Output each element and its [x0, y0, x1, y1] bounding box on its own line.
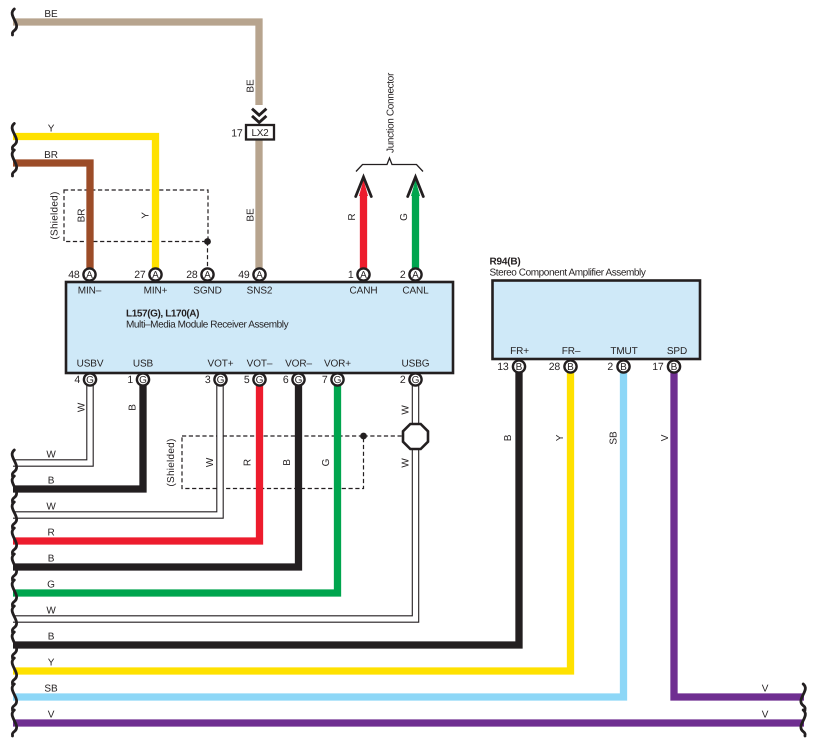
connector LX2 box with pin 17	[231, 125, 274, 140]
pin 7 G bottom of receiver	[322, 373, 344, 386]
svg-text:L157(G), L170(A): L157(G), L170(A)	[126, 308, 199, 319]
wire G green from pin 7 VOR+ to left break	[13, 380, 338, 593]
label BR on vertical wire	[77, 209, 88, 223]
label W on USBV wire	[77, 402, 88, 412]
svg-text:G: G	[86, 375, 94, 386]
svg-text:1: 1	[127, 374, 133, 386]
svg-text:V: V	[660, 434, 671, 441]
label wire colour W left	[46, 502, 56, 513]
label wire colour V right lower	[762, 710, 769, 721]
pin 17 B amplifier	[652, 360, 680, 373]
svg-text:Junction Connector: Junction Connector	[386, 72, 397, 153]
wire dashed drain from upper shield box to pin 28 SGND	[207, 242, 209, 270]
break symbol left for wire SB TMUT	[12, 684, 17, 710]
label pin name SNS2	[247, 286, 273, 297]
svg-text:TMUT: TMUT	[610, 346, 637, 357]
break symbol left for wire Y FR-	[12, 658, 17, 684]
svg-text:SGND: SGND	[193, 286, 222, 297]
label wire colour V right upper	[762, 684, 769, 695]
svg-text:2: 2	[400, 269, 406, 281]
pin 2 B amplifier	[607, 360, 629, 373]
pin 1 A top of receiver	[348, 268, 370, 281]
break symbol left for wire G VOR+	[12, 580, 17, 606]
wire BE beige from left break to LX2 connector	[13, 22, 259, 105]
junction dot on upper shield box corner	[204, 238, 211, 245]
pin 3 G bottom of receiver	[205, 373, 227, 386]
svg-text:B: B	[671, 362, 678, 373]
svg-text:3: 3	[205, 374, 211, 386]
label pin name USB	[133, 359, 154, 370]
connector LX2 double chevron	[252, 109, 266, 123]
svg-text:MIN+: MIN+	[144, 286, 168, 297]
wire G green CANL with junction-connector arrow	[408, 177, 424, 274]
break symbol left for wire B USB	[12, 476, 17, 502]
svg-text:G: G	[399, 213, 410, 221]
break symbol right for wire V SPD	[801, 684, 806, 710]
wire Y yellow from left break to pin 27 MIN+	[13, 137, 156, 275]
svg-text:B: B	[620, 362, 627, 373]
label wire colour B left	[48, 476, 55, 487]
break symbol left for wire W VOT+	[12, 502, 17, 528]
svg-text:B: B	[282, 459, 293, 466]
svg-text:BE: BE	[246, 208, 257, 222]
svg-text:(Shielded): (Shielded)	[166, 438, 177, 486]
label wire colour G left	[47, 580, 55, 591]
svg-text:R94(B): R94(B)	[490, 257, 521, 268]
shield box (Shielded) upper dashed rectangle	[64, 190, 208, 242]
label wire colour B left	[48, 554, 55, 565]
svg-text:MIN–: MIN–	[78, 286, 102, 297]
svg-text:W: W	[46, 450, 56, 461]
label wire colour W left	[46, 606, 56, 617]
svg-text:B: B	[48, 476, 55, 487]
shield box (Shielded) lower dashed rectangle	[182, 436, 364, 489]
svg-text:BR: BR	[77, 209, 88, 223]
svg-text:VOT–: VOT–	[247, 359, 273, 370]
pin 13 B amplifier	[497, 360, 525, 373]
svg-text:5: 5	[244, 374, 250, 386]
svg-text:G: G	[334, 375, 342, 386]
svg-text:Y: Y	[48, 124, 55, 135]
pin 48 A top of receiver	[68, 268, 95, 281]
break symbol left for wire BR	[12, 150, 17, 176]
svg-text:FR–: FR–	[562, 346, 581, 357]
svg-text:B: B	[48, 632, 55, 643]
wire B black from amplifier pin 13 FR+ to left break	[13, 367, 519, 645]
break symbol left for wire W USBG	[12, 606, 17, 632]
svg-text:7: 7	[322, 374, 328, 386]
label wire colour W left	[46, 450, 56, 461]
wire dashed drain from lower shield box to shield ground octagon	[364, 435, 416, 437]
label pin name MIN+	[144, 286, 168, 297]
svg-text:17: 17	[652, 361, 664, 373]
pin 27 A top of receiver	[134, 268, 161, 281]
svg-text:2: 2	[400, 374, 406, 386]
svg-text:W: W	[46, 502, 56, 513]
label (Shielded) lower	[166, 438, 177, 486]
break symbol left for wire V bottom	[12, 710, 17, 736]
junction connector brace	[356, 158, 423, 172]
svg-text:6: 6	[283, 374, 289, 386]
wire R red from pin 5 VOT- to left break	[13, 380, 260, 541]
label pin name VOT+	[208, 359, 234, 370]
wire BR brown from left break to pin 48 MIN-	[13, 163, 90, 274]
label pin name VOT&#8211;	[247, 359, 273, 370]
wire V violet pass-through across bottom	[13, 719, 804, 726]
svg-text:USB: USB	[133, 359, 154, 370]
wire Y yellow from amplifier pin 28 FR- to left break	[13, 367, 571, 671]
svg-text:USBV: USBV	[77, 359, 104, 370]
svg-text:W: W	[401, 458, 412, 468]
pin 2 A top of receiver	[400, 268, 422, 281]
label R on CANH wire	[347, 213, 358, 220]
svg-text:B: B	[516, 362, 523, 373]
pin 5 G bottom of receiver	[244, 373, 266, 386]
svg-text:CANL: CANL	[402, 286, 429, 297]
wire V violet from amplifier pin 17 SPD to right break	[674, 367, 804, 697]
svg-text:Y: Y	[48, 658, 55, 669]
break symbol right for wire V bottom	[801, 710, 806, 736]
box L157(G) L170(A) Multi-Media Module Receiver Assembly	[66, 282, 453, 373]
svg-text:G: G	[217, 375, 225, 386]
svg-text:W: W	[77, 402, 88, 412]
label pin name CANH	[350, 286, 378, 297]
svg-text:Multi–Media Module Receiver As: Multi–Media Module Receiver Assembly	[126, 320, 289, 331]
label amplifier pin name FR+	[510, 346, 529, 357]
svg-text:FR+: FR+	[510, 346, 529, 357]
svg-text:USBG: USBG	[402, 359, 430, 370]
label R94(B)	[490, 257, 521, 268]
break symbol left for wire Y	[12, 124, 17, 150]
svg-text:VOR–: VOR–	[285, 359, 312, 370]
wire R red CANH with junction-connector arrow	[356, 177, 372, 274]
svg-text:VOR+: VOR+	[324, 359, 351, 370]
label R in lower shield box	[243, 459, 254, 466]
label wire colour V left	[48, 710, 55, 721]
label pin name USBG	[402, 359, 430, 370]
svg-text:SPD: SPD	[667, 346, 687, 357]
svg-text:G: G	[412, 375, 420, 386]
svg-text:BE: BE	[44, 9, 58, 20]
label BE on vertical wire upper	[246, 79, 257, 93]
svg-text:A: A	[412, 270, 419, 281]
svg-text:A: A	[360, 270, 367, 281]
svg-text:W: W	[46, 606, 56, 617]
label pin name CANL	[402, 286, 429, 297]
svg-text:G: G	[47, 580, 55, 591]
label pin name SGND	[193, 286, 222, 297]
svg-text:R: R	[243, 459, 254, 466]
wire SB sky-blue from amplifier pin 2 TMUT to left break	[13, 367, 624, 697]
wire W white from pin 4 USBV to left break	[13, 380, 90, 463]
pin 4 G bottom of receiver	[74, 373, 96, 386]
label pin name USBV	[77, 359, 104, 370]
label pin name MIN&#8211;	[78, 286, 102, 297]
svg-text:1: 1	[348, 269, 354, 281]
svg-text:G: G	[139, 375, 147, 386]
label SB on TMUT wire	[609, 431, 620, 445]
svg-text:A: A	[256, 270, 263, 281]
label amplifier pin name TMUT	[610, 346, 637, 357]
label Junction Connector	[386, 72, 397, 153]
svg-text:28: 28	[186, 269, 198, 281]
svg-text:Y: Y	[555, 434, 566, 441]
break symbol left for wire B VOR-	[12, 554, 17, 580]
svg-text:W: W	[205, 457, 216, 467]
label Multi-Media Module Receiver Assembly	[126, 320, 289, 331]
svg-text:B: B	[48, 554, 55, 565]
label L157(G) L170(A)	[126, 308, 199, 319]
svg-text:V: V	[762, 684, 769, 695]
pin 49 A top of receiver	[238, 268, 265, 281]
svg-text:G: G	[256, 375, 264, 386]
label Y on vertical wire	[141, 212, 152, 219]
svg-text:SB: SB	[44, 684, 58, 695]
label W in lower shield box	[205, 457, 216, 467]
pin 28 A top of receiver	[186, 268, 213, 281]
wire BE beige from LX2 connector to pin 49 SNS2	[255, 139, 262, 274]
label G in lower shield box	[321, 458, 332, 466]
svg-text:V: V	[762, 710, 769, 721]
svg-text:CANH: CANH	[350, 286, 378, 297]
label B in lower shield box	[282, 459, 293, 466]
label Stereo Component Amplifier Assembly	[490, 268, 646, 279]
svg-text:B: B	[128, 404, 139, 411]
svg-text:B: B	[503, 434, 514, 441]
label pin name VOR+	[324, 359, 351, 370]
label V on SPD wire	[660, 434, 671, 441]
svg-text:W: W	[401, 405, 412, 415]
svg-text:SB: SB	[609, 431, 620, 445]
break symbol left for wire R VOT-	[12, 528, 17, 554]
svg-text:A: A	[86, 270, 93, 281]
svg-text:49: 49	[238, 269, 250, 281]
svg-text:17: 17	[231, 128, 243, 140]
pin 28 B amplifier	[549, 360, 577, 373]
label amplifier pin name SPD	[667, 346, 687, 357]
break symbol left for wire W USBV	[12, 450, 17, 476]
pin 1 G bottom of receiver	[127, 373, 149, 386]
label amplifier pin name FR&#8211;	[562, 346, 581, 357]
label B on USB wire	[128, 404, 139, 411]
wire B black from pin 6 VOR- to left break	[13, 380, 299, 567]
pin 2 G bottom of receiver	[400, 373, 422, 386]
svg-text:Y: Y	[141, 212, 152, 219]
svg-text:Stereo Component Amplifier Ass: Stereo Component Amplifier Assembly	[490, 268, 646, 279]
svg-text:BR: BR	[44, 150, 58, 161]
svg-text:4: 4	[74, 374, 80, 386]
wire W white from pin 2 USBG through octagon to left break	[13, 380, 416, 619]
label W above octagon	[401, 405, 412, 415]
box R94(B) Stereo Component Amplifier Assembly	[493, 281, 701, 360]
pin 6 G bottom of receiver	[283, 373, 305, 386]
label W below octagon	[401, 458, 412, 468]
shield ground octagon symbol on USBG wire	[403, 424, 428, 449]
label G on CANL wire	[399, 213, 410, 221]
svg-text:13: 13	[497, 361, 509, 373]
label B on FR+ wire	[503, 434, 514, 441]
label wire colour Y left	[48, 124, 55, 135]
svg-text:R: R	[347, 213, 358, 220]
svg-text:VOT+: VOT+	[208, 359, 234, 370]
junction dot on lower shield box corner	[360, 433, 367, 440]
wire W white from pin 3 VOT+ to left break	[13, 380, 220, 515]
label wire colour B left	[48, 632, 55, 643]
label wire colour BR left	[44, 150, 58, 161]
svg-text:A: A	[152, 270, 159, 281]
svg-text:48: 48	[68, 269, 80, 281]
label wire colour Y left	[48, 658, 55, 669]
label wire colour SB left	[44, 684, 58, 695]
svg-text:28: 28	[549, 361, 561, 373]
break symbol left for wire BE	[12, 9, 17, 35]
svg-text:B: B	[567, 362, 574, 373]
wire B black from pin 1 USB to left break	[13, 380, 143, 489]
svg-text:2: 2	[607, 361, 613, 373]
svg-text:V: V	[48, 710, 55, 721]
svg-text:27: 27	[134, 269, 146, 281]
label BE on vertical wire lower	[246, 208, 257, 222]
svg-text:SNS2: SNS2	[247, 286, 273, 297]
label Y on FR- wire	[555, 434, 566, 441]
label wire colour R left	[47, 528, 54, 539]
label (Shielded) upper	[50, 191, 61, 239]
label wire colour BE left	[44, 9, 58, 20]
svg-text:R: R	[47, 528, 54, 539]
svg-text:LX2: LX2	[252, 128, 270, 139]
svg-text:G: G	[321, 458, 332, 466]
svg-text:BE: BE	[246, 79, 257, 93]
break symbol left for wire B FR+	[12, 632, 17, 658]
svg-text:G: G	[295, 375, 303, 386]
label pin name VOR&#8211;	[285, 359, 312, 370]
svg-text:(Shielded): (Shielded)	[50, 191, 61, 239]
svg-text:A: A	[204, 270, 211, 281]
